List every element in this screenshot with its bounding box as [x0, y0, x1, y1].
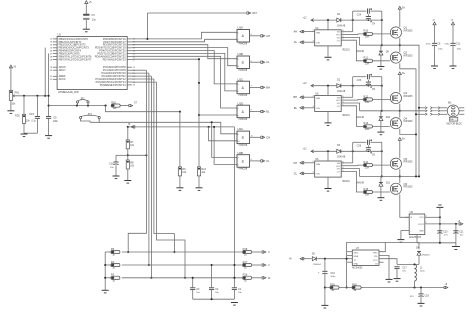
- svg-text:10R: 10R: [365, 37, 370, 39]
- svg-text:R21: R21: [201, 167, 206, 171]
- svg-text:1N4004: 1N4004: [313, 264, 321, 266]
- svg-text:Q4: Q4: [404, 116, 408, 120]
- svg-text:C26: C26: [357, 145, 362, 148]
- svg-text:IRF3205: IRF3205: [404, 121, 414, 123]
- svg-text:74HC08: 74HC08: [238, 94, 248, 97]
- svg-text:HI: HI: [128, 124, 131, 126]
- svg-text:R11: R11: [364, 56, 369, 60]
- svg-text:AH: AH: [293, 30, 297, 34]
- svg-text:U1B: U1B: [238, 52, 244, 56]
- svg-text:C12: C12: [456, 43, 461, 45]
- svg-text:R16: R16: [243, 273, 248, 277]
- svg-text:RST: RST: [252, 13, 257, 15]
- svg-text:IRF3205: IRF3205: [404, 187, 414, 189]
- svg-text:SWC: SWC: [354, 253, 359, 255]
- svg-text:PC6/RESET/PCINT14: PC6/RESET/PCINT14: [100, 83, 127, 87]
- svg-text:11: 11: [251, 136, 253, 138]
- svg-text:1N4148: 1N4148: [337, 25, 346, 27]
- svg-text:D10: D10: [386, 116, 391, 119]
- svg-text:470u: 470u: [426, 43, 432, 45]
- svg-text:220u: 220u: [420, 271, 426, 273]
- svg-text:10R: 10R: [365, 168, 370, 170]
- svg-text:VCC: VCC: [419, 217, 424, 219]
- svg-text:JP2: JP2: [80, 96, 85, 100]
- svg-text:7: 7: [251, 86, 252, 88]
- svg-text:LO: LO: [337, 172, 340, 174]
- svg-text:1N4148: 1N4148: [356, 182, 365, 184]
- svg-text:SWE: SWE: [354, 256, 359, 258]
- svg-text:2: 2: [426, 222, 427, 224]
- svg-text:HI: HI: [289, 258, 292, 261]
- svg-text:D11: D11: [386, 182, 391, 185]
- svg-text:R6: R6: [182, 167, 186, 171]
- svg-text:100u: 100u: [330, 276, 336, 278]
- svg-text:HO: HO: [336, 35, 340, 37]
- svg-text:U1A: U1A: [238, 26, 244, 30]
- svg-text:74HC08: 74HC08: [238, 168, 248, 171]
- svg-text:470u: 470u: [444, 43, 450, 45]
- svg-text:IRF3205: IRF3205: [404, 96, 414, 98]
- svg-text:2: 2: [313, 161, 314, 163]
- svg-text:7: 7: [237, 108, 238, 110]
- svg-text:VOUT: VOUT: [418, 224, 425, 226]
- svg-text:HIN: HIN: [316, 33, 320, 35]
- svg-text:LIN: LIN: [316, 174, 320, 176]
- svg-text:R29: R29: [330, 282, 335, 286]
- svg-text:1N4004: 1N4004: [422, 254, 430, 256]
- svg-text:DRC: DRC: [373, 253, 378, 255]
- svg-text:C25: C25: [357, 79, 362, 82]
- svg-text:R26: R26: [15, 114, 20, 118]
- svg-text:U7: U7: [356, 246, 360, 250]
- svg-text:BH: BH: [293, 95, 297, 99]
- svg-text:1N4148: 1N4148: [356, 51, 365, 53]
- svg-text:74HC08: 74HC08: [238, 69, 248, 72]
- svg-text:9: 9: [251, 110, 252, 112]
- svg-text:Q5: Q5: [404, 157, 408, 161]
- svg-text:CL: CL: [294, 171, 298, 175]
- svg-text:7: 7: [342, 164, 343, 166]
- svg-text:C21: C21: [459, 232, 464, 234]
- svg-text:9: 9: [237, 134, 238, 136]
- svg-text:LIN: LIN: [316, 108, 320, 110]
- svg-text:PD7/AIN1/PCINT23: PD7/AIN1/PCINT23: [103, 57, 127, 61]
- svg-text:HIN: HIN: [316, 98, 320, 100]
- svg-text:R13: R13: [364, 121, 369, 125]
- svg-text:74HC08: 74HC08: [238, 144, 248, 147]
- svg-text:M1: M1: [448, 101, 452, 105]
- svg-text:100n: 100n: [53, 121, 59, 123]
- svg-text:R7: R7: [130, 140, 134, 144]
- svg-text:R5: R5: [111, 247, 115, 251]
- svg-text:ADC7: ADC7: [59, 68, 67, 72]
- svg-text:C9: C9: [53, 116, 57, 120]
- svg-text:R15: R15: [364, 187, 369, 191]
- svg-text:Q1: Q1: [404, 26, 408, 30]
- svg-text:ACE78DCX: ACE78DCX: [409, 236, 422, 239]
- svg-text:10R: 10R: [365, 129, 370, 131]
- svg-text:C18: C18: [425, 296, 430, 298]
- svg-text:U2A: U2A: [238, 127, 244, 131]
- svg-text:U1C: U1C: [238, 77, 244, 81]
- svg-text:LO: LO: [337, 40, 340, 42]
- svg-text:C16: C16: [330, 272, 335, 275]
- svg-text:R3: R3: [111, 273, 115, 277]
- svg-text:MC34063: MC34063: [352, 268, 363, 270]
- svg-text:CH: CH: [266, 135, 270, 139]
- svg-text:C20: C20: [443, 232, 448, 234]
- svg-text:U2: U2: [58, 33, 62, 37]
- svg-text:10R: 10R: [365, 63, 370, 65]
- svg-text:R8: R8: [130, 160, 134, 164]
- svg-text:R18: R18: [243, 247, 248, 251]
- svg-text:Q2: Q2: [404, 51, 408, 55]
- svg-text:74HC08: 74HC08: [238, 42, 248, 45]
- svg-text:C3: C3: [91, 13, 95, 17]
- svg-text:C17: C17: [402, 266, 407, 269]
- svg-text:10R: 10R: [365, 195, 370, 197]
- svg-text:LO: LO: [337, 106, 340, 108]
- svg-text:GND: GND: [354, 263, 359, 265]
- svg-text:JP3: JP3: [87, 112, 92, 116]
- svg-text:R17: R17: [243, 260, 248, 264]
- svg-text:IRF3205: IRF3205: [404, 162, 414, 164]
- svg-text:IR2101: IR2101: [342, 115, 350, 117]
- svg-text:0.1u: 0.1u: [31, 121, 36, 123]
- svg-text:1: 1: [426, 216, 427, 218]
- svg-text:R12: R12: [364, 94, 369, 98]
- svg-text:GND: GND: [419, 230, 424, 232]
- svg-text:HIN: HIN: [316, 164, 320, 166]
- svg-text:Q3: Q3: [404, 91, 408, 95]
- svg-text:CII: CII: [375, 263, 378, 265]
- svg-text:74HC08: 74HC08: [238, 118, 248, 121]
- svg-text:1N4148: 1N4148: [337, 91, 346, 93]
- svg-text:ATMEGA48_DIP: ATMEGA48_DIP: [58, 90, 79, 94]
- svg-text:2: 2: [237, 158, 238, 160]
- svg-text:PB7/XTAL2/TOSC2/PCINT7: PB7/XTAL2/TOSC2/PCINT7: [59, 57, 92, 61]
- svg-text:U5: U5: [315, 92, 319, 96]
- svg-text:TC: TC: [354, 260, 357, 262]
- svg-text:IR2101: IR2101: [342, 50, 350, 52]
- svg-text:IRF3205: IRF3205: [404, 30, 414, 32]
- svg-text:C15: C15: [29, 112, 34, 116]
- svg-text:R4: R4: [111, 260, 115, 264]
- svg-text:10R: 10R: [365, 102, 370, 104]
- svg-text:R10: R10: [364, 29, 369, 33]
- svg-text:R20: R20: [111, 100, 116, 104]
- svg-text:MOTOR-BLDC: MOTOR-BLDC: [447, 123, 463, 125]
- svg-text:1N4148: 1N4148: [337, 157, 346, 159]
- svg-text:1N4148: 1N4148: [356, 117, 365, 119]
- svg-text:R14: R14: [364, 160, 369, 164]
- svg-text:LIN: LIN: [316, 42, 320, 44]
- svg-text:2: 2: [313, 96, 314, 98]
- svg-text:2: 2: [237, 40, 238, 42]
- svg-text:C10: C10: [109, 163, 114, 166]
- svg-text:U3: U3: [410, 210, 414, 214]
- svg-text:U2B: U2B: [238, 151, 244, 155]
- svg-text:7: 7: [342, 99, 343, 101]
- svg-text:U6: U6: [315, 157, 319, 161]
- svg-text:HO: HO: [336, 166, 340, 168]
- svg-text:2: 2: [313, 30, 314, 32]
- svg-text:1: 1: [237, 33, 238, 35]
- svg-text:RV1: RV1: [15, 91, 20, 95]
- svg-text:HO: HO: [336, 100, 340, 102]
- svg-text:U1D: U1D: [238, 102, 244, 106]
- svg-text:AVCC: AVCC: [59, 77, 66, 81]
- svg-text:CL: CL: [266, 159, 270, 163]
- svg-text:VCC: VCC: [373, 260, 378, 262]
- svg-text:U4: U4: [315, 26, 319, 30]
- svg-text:R30: R30: [352, 282, 357, 286]
- svg-text:AH: AH: [266, 34, 270, 38]
- svg-text:IRF3205: IRF3205: [404, 55, 414, 57]
- svg-text:BH: BH: [266, 85, 270, 89]
- svg-text:CH: CH: [293, 161, 297, 165]
- svg-text:7: 7: [342, 33, 343, 35]
- svg-text:Q6: Q6: [404, 182, 408, 186]
- svg-text:C24: C24: [357, 13, 362, 16]
- svg-text:IR2101: IR2101: [342, 181, 350, 183]
